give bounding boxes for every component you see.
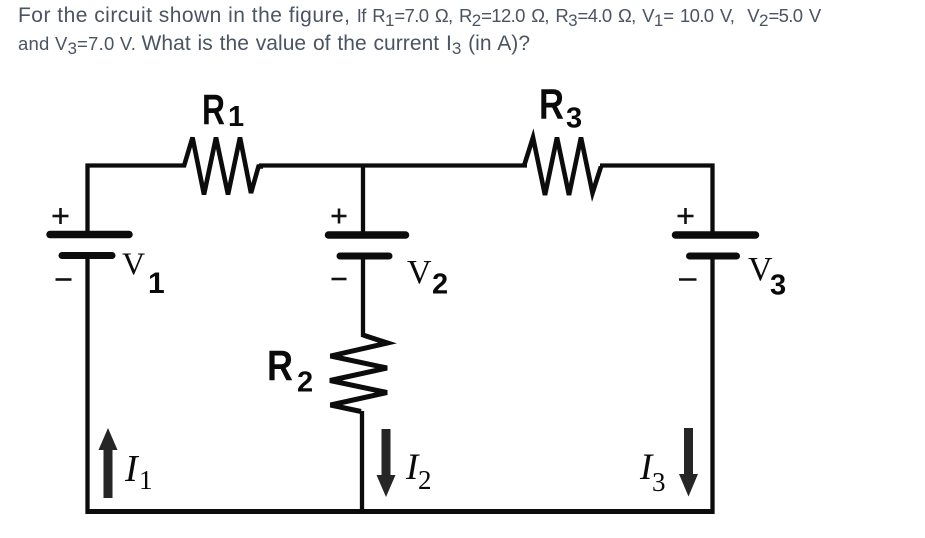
label R2 — [267, 342, 313, 399]
label I2 — [405, 447, 432, 495]
svg-text:R: R — [539, 81, 564, 129]
resistor R1 — [184, 138, 263, 195]
wire top right segment — [600, 163, 715, 167]
svg-text:R: R — [202, 86, 225, 134]
svg-text:1: 1 — [148, 267, 165, 300]
label V2 — [407, 254, 448, 301]
question text — [18, 2, 898, 58]
svg-text:2: 2 — [418, 465, 432, 495]
wire middle branch upper — [361, 164, 365, 233]
current arrow I2 — [377, 429, 396, 497]
svg-text:3: 3 — [652, 467, 666, 497]
current arrow I3 — [679, 428, 698, 497]
svg-text:1: 1 — [139, 465, 153, 495]
svg-text:3: 3 — [770, 270, 786, 302]
svg-text:R: R — [267, 342, 293, 390]
wire middle branch lower — [360, 411, 364, 513]
wire bottom — [86, 509, 715, 514]
svg-text:3: 3 — [566, 103, 582, 135]
label I1 — [124, 448, 153, 495]
wire top middle segment — [259, 163, 527, 167]
label V3 — [748, 251, 786, 302]
svg-text:1: 1 — [228, 101, 244, 133]
label R3 — [539, 81, 582, 135]
svg-text:2: 2 — [432, 269, 448, 301]
minus sign V3 — [679, 278, 697, 281]
battery V1 — [50, 235, 129, 256]
wire left branch lower — [85, 254, 89, 514]
svg-text:2: 2 — [297, 367, 313, 399]
minus sign V2 — [332, 278, 347, 281]
battery V3 — [676, 235, 756, 256]
label V1 — [122, 246, 165, 301]
minus sign V1 — [56, 278, 72, 281]
battery V2 — [329, 235, 406, 256]
svg-text:I: I — [124, 448, 140, 490]
wire middle branch between battery and R2 — [361, 254, 365, 337]
wire left branch upper — [85, 164, 89, 233]
wire right branch upper — [710, 164, 714, 233]
wire right branch lower — [710, 254, 714, 514]
plus sign V3 — [678, 208, 694, 224]
label I3 — [639, 447, 666, 497]
label R1 — [202, 86, 244, 134]
plus sign V2 — [332, 209, 347, 224]
wire top left segment — [86, 163, 187, 167]
resistor R2 — [330, 335, 388, 412]
svg-text:V: V — [122, 246, 145, 282]
svg-text:V: V — [407, 254, 432, 291]
current arrow I1 — [99, 428, 118, 498]
plus sign V1 — [53, 208, 69, 224]
resistor R3 — [524, 138, 601, 196]
